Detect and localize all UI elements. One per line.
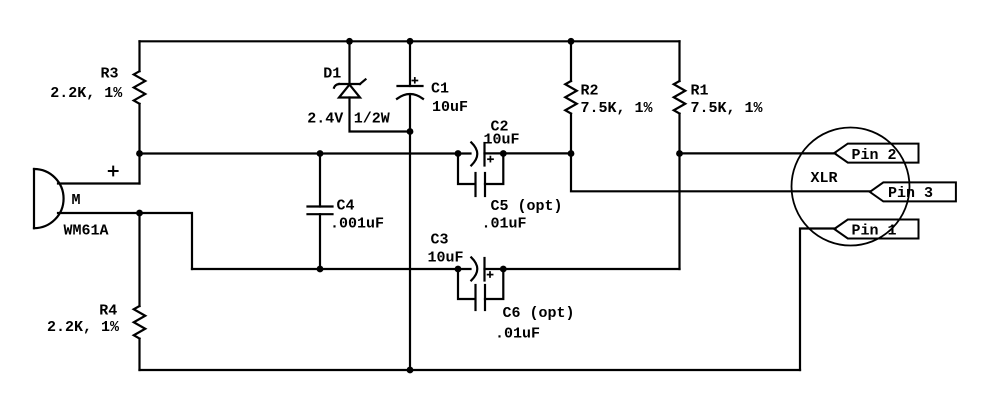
capacitor C2	[471, 142, 493, 165]
wire C6 branch left	[458, 269, 475, 299]
svg-text:C6 (opt): C6 (opt)	[503, 305, 575, 322]
capacitor C5	[476, 173, 486, 196]
wire R2 bottom lead	[570, 114, 572, 154]
junction node mic minus R4	[136, 210, 143, 217]
wire R4 bottom lead	[138, 339, 140, 370]
wire C4 bottom lead	[319, 214, 321, 269]
svg-text:XLR: XLR	[811, 170, 838, 187]
svg-text:7.5K, 1%: 7.5K, 1%	[581, 100, 654, 117]
wire R3 top lead	[138, 41, 140, 71]
resistor R1	[674, 81, 686, 114]
svg-text:1/2W: 1/2W	[354, 111, 390, 128]
svg-text:R1: R1	[691, 83, 709, 100]
junction node R3 mid line	[136, 150, 143, 157]
zener diode D1	[334, 79, 366, 97]
resistor R3	[134, 71, 146, 104]
wire R2 to Pin 3	[571, 154, 871, 192]
wire R1 mid to Pin 2	[680, 152, 836, 154]
wire lower signal line left	[192, 268, 471, 270]
wire R2 top lead	[570, 41, 572, 81]
junction node R1 mid	[676, 150, 683, 157]
wire C4 top lead	[319, 154, 321, 207]
junction node C2 right	[500, 150, 507, 157]
junction node ground bus C1 column	[407, 367, 414, 374]
junction node C4 top	[317, 150, 324, 157]
junction node C4 bottom	[317, 266, 324, 273]
svg-text:D1: D1	[323, 66, 341, 83]
svg-text:Pin 2: Pin 2	[852, 147, 897, 164]
wire mic minus lead	[58, 213, 192, 269]
svg-text:2.2K, 1%: 2.2K, 1%	[47, 319, 120, 336]
XLR connector circle	[792, 128, 910, 246]
junction node C3 right	[500, 266, 507, 273]
wire C1 top lead	[409, 41, 411, 86]
junction node D1 anode to C1 column	[407, 128, 414, 135]
capacitor C6	[476, 285, 486, 310]
svg-text:10uF: 10uF	[432, 99, 468, 116]
junction node C1 top	[407, 38, 414, 45]
pin 2 flag	[834, 144, 918, 163]
svg-text:WM61A: WM61A	[64, 223, 109, 240]
wire R1 bottom lead	[678, 114, 680, 269]
svg-text:.01uF: .01uF	[495, 326, 540, 343]
wire D1 anode lead	[350, 98, 411, 132]
mic plus sign	[109, 167, 118, 176]
svg-text:7.5K, 1%: 7.5K, 1%	[691, 100, 764, 117]
svg-text:.01uF: .01uF	[482, 216, 527, 233]
resistor R4	[134, 306, 146, 339]
wire top supply bus	[140, 40, 680, 42]
resistor R2	[565, 81, 577, 114]
wire D1 cathode lead	[348, 41, 350, 84]
svg-text:C3: C3	[431, 232, 449, 249]
junction node D1 top	[346, 38, 353, 45]
svg-text:C5 (opt): C5 (opt)	[491, 198, 563, 215]
wire to Pin 1	[800, 229, 836, 371]
svg-text:2.4V: 2.4V	[307, 111, 343, 128]
svg-text:R4: R4	[99, 303, 117, 320]
wire ground bus bottom	[140, 369, 801, 371]
capacitor C4	[308, 207, 333, 215]
wire lower signal line right	[485, 268, 680, 270]
svg-text:2.2K, 1%: 2.2K, 1%	[50, 85, 123, 102]
svg-text:R3: R3	[101, 66, 119, 83]
pin 1 flag	[834, 220, 918, 239]
wire C2 right to R2	[485, 152, 572, 154]
wire C1 column down to ground bus	[409, 95, 411, 370]
microphone M WM61A	[34, 169, 64, 228]
svg-text:10uF: 10uF	[428, 250, 464, 267]
capacitor C3	[471, 257, 492, 280]
junction node R2 bottom	[568, 150, 575, 157]
svg-text:10uF: 10uF	[484, 132, 520, 149]
wire C5 branch right	[485, 154, 503, 185]
wire C6 branch right	[485, 269, 503, 299]
capacitor C1	[397, 78, 423, 99]
pin 3 flag	[870, 182, 956, 201]
wire R1 top lead	[678, 41, 680, 81]
svg-text:C4: C4	[337, 198, 355, 215]
svg-text:R2: R2	[581, 83, 599, 100]
svg-text:Pin 3: Pin 3	[888, 185, 933, 202]
svg-text:.001uF: .001uF	[330, 216, 384, 233]
junction node R2 top	[568, 38, 575, 45]
svg-text:Pin 1: Pin 1	[852, 223, 897, 240]
wire R3 bottom lead	[138, 104, 140, 184]
wire R4 top lead	[138, 213, 140, 306]
svg-text:C1: C1	[431, 81, 449, 98]
junction node C2 left	[455, 150, 462, 157]
wire C5 branch left	[458, 154, 475, 185]
svg-text:M: M	[72, 192, 81, 209]
wire mic plus lead	[58, 182, 140, 184]
wire mid signal line left	[140, 152, 471, 154]
junction node C3 left	[455, 266, 462, 273]
